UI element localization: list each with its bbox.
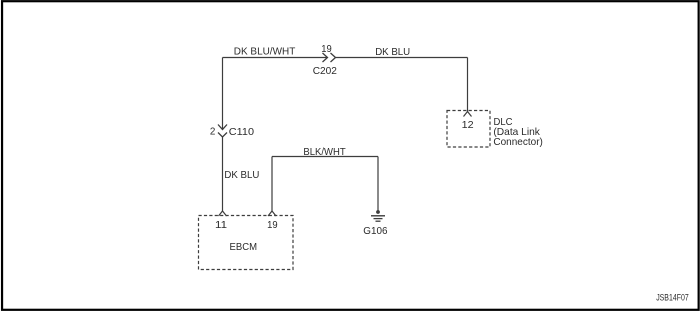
wire: top horizontal right segment (DK BLU): [336, 57, 468, 59]
pin 12 entry fork at DLC: [464, 112, 472, 117]
svg-text:BLK/WHT: BLK/WHT: [303, 147, 346, 158]
connector C202 chevron 1: [323, 53, 328, 62]
wire: left vertical lower (DK BLU to EBCM pin 11): [222, 137, 224, 211]
svg-text:2: 2: [210, 126, 216, 137]
connector C110 arrow chevron (upper): [218, 125, 227, 130]
svg-text:C110: C110: [229, 127, 254, 138]
pin 11 entry fork at EBCM: [219, 211, 227, 216]
svg-text:DK BLU/WHT: DK BLU/WHT: [234, 46, 296, 57]
svg-text:G106: G106: [363, 226, 387, 237]
wire: vertical down to ground: [377, 157, 379, 213]
wire: EBCM pin 19 vertical up: [271, 157, 273, 212]
wire: BLK/WHT horizontal: [272, 156, 378, 158]
svg-text:JSB14F07: JSB14F07: [656, 292, 689, 302]
svg-text:Connector): Connector): [493, 137, 543, 148]
connector C202 chevron 2: [331, 53, 336, 62]
svg-text:12: 12: [462, 120, 474, 131]
svg-text:11: 11: [215, 220, 227, 231]
svg-text:C202: C202: [313, 66, 337, 77]
svg-text:DK BLU: DK BLU: [224, 170, 259, 181]
wire: right vertical to DLC: [467, 58, 469, 112]
wire: top horizontal left segment (DK BLU/WHT): [223, 57, 327, 59]
wire: left vertical upper (to C110): [222, 58, 224, 130]
connector C110 chevron (lower): [218, 133, 227, 138]
DLC box (dashed): [447, 111, 490, 148]
EBCM box (dashed): [199, 216, 294, 270]
svg-text:DK BLU: DK BLU: [375, 47, 410, 58]
svg-text:19: 19: [267, 220, 278, 231]
svg-text:19: 19: [321, 44, 332, 55]
pin 19 entry fork at EBCM: [268, 211, 276, 216]
ground G106 symbol: [371, 210, 385, 221]
svg-text:EBCM: EBCM: [230, 242, 258, 253]
